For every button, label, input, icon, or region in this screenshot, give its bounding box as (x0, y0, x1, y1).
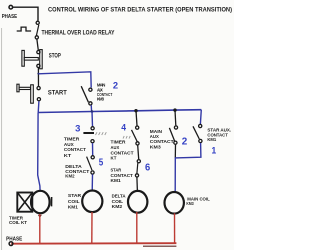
svg-text:KM3: KM3 (97, 97, 105, 102)
svg-text:COIL: COIL (112, 199, 124, 204)
overload pulse symbol (17, 27, 31, 31)
svg-text:THERMAL OVER LOAD RELAY: THERMAL OVER LOAD RELAY (42, 29, 116, 36)
star aux contact KM1 node 1 (199, 124, 202, 127)
label TIMER AUX CONTACT KT (branch 3) (111, 139, 134, 161)
branch 5 wire top (blue) (199, 110, 202, 124)
svg-text:PHASE: PHASE (2, 14, 18, 20)
wire branch 4 lower (174, 145, 176, 158)
main aux contact KM3 (top, parallel with start) (89, 88, 92, 91)
wire merge branch 4+5 to main coil (blue) (175, 143, 201, 193)
hatch marks (96, 132, 107, 135)
wire timer coil to bottom bus (red) (39, 214, 41, 243)
svg-text:STOP: STOP (49, 52, 61, 59)
phase terminal (top) (9, 5, 13, 9)
wire main coil to bottom bus (red) (174, 213, 176, 243)
svg-text:4: 4 (121, 123, 126, 134)
svg-text:2: 2 (113, 80, 118, 91)
node 4 label (121, 123, 126, 134)
node 2 (mid) label (182, 137, 188, 148)
svg-text:6: 6 (145, 163, 150, 174)
branch 3 wire top (136, 111, 137, 126)
label STOP (49, 52, 61, 59)
bus wire (blue) (38, 110, 201, 113)
label TIMER AUX CONTACT KT (branch 2) (64, 136, 86, 159)
wire between contacts branch 3 (138, 145, 139, 159)
svg-text:KM3: KM3 (186, 201, 194, 206)
wire star coil to bottom bus (red) (91, 212, 93, 243)
main coil KM3 (165, 192, 184, 214)
star coil KM1 (82, 191, 102, 213)
thermal overload relay contact (36, 21, 39, 24)
wire phase to thermal (13, 7, 38, 20)
main aux contact KM3 (mid) node 2 (174, 126, 177, 129)
label MAIN AUX CONTACT KM3 (top) (97, 83, 113, 102)
svg-text:AUX: AUX (150, 134, 160, 139)
svg-text:START: START (48, 89, 67, 96)
label MAIN AUX CONTACT KM3 (mid) (150, 129, 174, 149)
svg-text:KM3: KM3 (150, 144, 161, 149)
svg-text:KM2: KM2 (112, 204, 123, 209)
timer coil KT circle (31, 191, 50, 213)
svg-text:CONTROL WIRING OF STAR DELTA S: CONTROL WIRING OF STAR DELTA STARTER (OP… (48, 6, 232, 13)
svg-text:DELTA: DELTA (65, 164, 82, 170)
node 5 label (99, 157, 104, 168)
wire left branch down to timer coil (blue) (38, 113, 40, 192)
arrowhead at timer coil bottom (38, 215, 42, 218)
node 6 label (145, 163, 150, 174)
wire thermal to stop (37, 39, 38, 50)
wire branch to KM3 aux (blue) (39, 72, 92, 88)
title (48, 6, 232, 13)
svg-text:CONTACT: CONTACT (111, 173, 133, 179)
label STAR AUX. CONTACT KM1 (207, 128, 231, 143)
svg-text:CONTACT: CONTACT (64, 147, 86, 153)
timer aux contact KT (NC) node 3 (91, 127, 94, 130)
svg-text:KM2: KM2 (65, 174, 74, 180)
junction nub (37, 73, 39, 75)
svg-text:KT: KT (111, 156, 117, 162)
node 3 label (75, 123, 80, 134)
junction branch 2 on bus (91, 110, 94, 113)
label STAR CONTACT KM1 (111, 167, 133, 184)
label THERMAL OVER LOAD RELAY (42, 29, 116, 36)
label MAIN COIL KM3 (186, 197, 209, 206)
svg-text:TIMER: TIMER (111, 139, 127, 145)
junction branch 4 on bus (173, 108, 176, 111)
label DELTA CONTACT KM2 (65, 164, 89, 180)
junction branch 3 on bus (134, 109, 137, 112)
label STAR COIL KM1 (68, 193, 82, 209)
svg-text:PHASE: PHASE (6, 237, 23, 243)
hatch marks 2 (123, 136, 130, 139)
wire delta coil to bottom bus (red) (136, 212, 138, 243)
svg-text:STAR: STAR (68, 193, 82, 198)
svg-text:5: 5 (99, 157, 104, 168)
label START (48, 89, 67, 96)
svg-text:2: 2 (182, 137, 188, 148)
svg-text:1: 1 (212, 145, 217, 156)
svg-text:COIL KT: COIL KT (9, 220, 27, 225)
node 2 (top) (113, 80, 118, 91)
svg-text:KT: KT (64, 153, 71, 159)
delta coil KM2 (128, 191, 147, 213)
svg-text:AUX: AUX (64, 142, 75, 148)
wire to delta coil (136, 177, 139, 191)
svg-text:AUX: AUX (111, 145, 120, 151)
branch 2 wire top (blue) (91, 112, 94, 127)
star contact KM1 node 6 (137, 160, 140, 163)
timer coil KT box (17, 193, 32, 212)
label TIMER COIL KT (9, 216, 27, 225)
bottom phase terminal (9, 242, 13, 246)
wire to star coil (blue) (91, 174, 93, 191)
svg-text:KM1: KM1 (207, 137, 216, 142)
node 1 label (212, 145, 217, 156)
dark under segment (143, 245, 176, 247)
wire between contacts branch 2 (blue) (92, 143, 94, 155)
start pushbutton (NO) (17, 84, 19, 92)
bottom phase bus (red) (11, 242, 176, 245)
wire start to bus (blue) (37, 101, 40, 112)
tick right of timer coil (51, 197, 53, 206)
svg-text:CONTACT: CONTACT (150, 139, 174, 144)
svg-text:TIMER: TIMER (64, 136, 80, 142)
svg-text:KM1: KM1 (68, 204, 78, 209)
timer aux contact KT (NO) node 4 (136, 126, 139, 129)
svg-text:DELTA: DELTA (112, 194, 127, 199)
label PHASE (top) (2, 14, 18, 20)
svg-text:STAR: STAR (111, 167, 122, 173)
branch 4 wire top (174, 110, 177, 125)
label PHASE (bottom) (6, 237, 23, 243)
svg-text:CONTACT: CONTACT (111, 150, 134, 156)
svg-text:KM1: KM1 (111, 178, 122, 184)
stop pushbutton (NC) (22, 50, 24, 66)
svg-text:STAR AUX.: STAR AUX. (207, 128, 231, 133)
svg-text:3: 3 (75, 123, 80, 134)
delta contact KM2 (NO) node 5 (91, 156, 94, 159)
svg-text:COIL: COIL (68, 199, 80, 204)
scan left border (1, 28, 3, 250)
wire stop to start (37, 68, 39, 86)
label DELTA COIL KM2 (right) (112, 194, 127, 209)
